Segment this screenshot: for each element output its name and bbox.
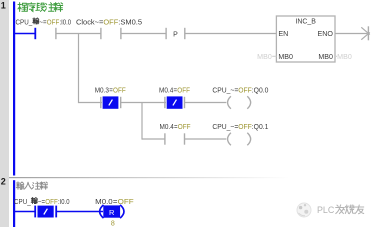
left power rail network 2 [13,180,15,227]
svg-text::I0.0: :I0.0 [60,19,72,26]
contact M0.4 left leg (rung2) [164,97,166,108]
svg-text:P: P [173,31,178,38]
contact M0.4 closed highlight box (rung2) [167,96,183,108]
svg-text:CPU_~=: CPU_~= [212,87,238,94]
wire to coil Q0.0 [185,102,227,104]
rung 1 wire from rail (energized) [14,33,35,35]
svg-text:Clock~=: Clock~= [76,19,103,26]
branch junction down to rung 2 [78,34,80,104]
svg-text:2: 2 [1,176,6,186]
svg-text::Q0.0: :Q0.0 [252,87,269,94]
wire to INC_B EN [185,33,277,35]
coil Q0.1 [228,133,231,146]
wire [56,33,101,35]
contact M0.4 right leg (rung2) [184,97,186,108]
svg-text:MB0: MB0 [278,54,293,61]
wire to coil Q0.1 [185,138,227,140]
svg-text:OFF: OFF [113,87,126,94]
network 1 comment 程序段注释 [18,3,27,12]
svg-text:OFF: OFF [47,19,60,26]
svg-text:MB0: MB0 [318,54,333,61]
pin stub IN [272,55,276,57]
svg-text:EN: EN [278,31,288,38]
svg-text:CPU_: CPU_ [16,19,33,26]
network number sidebar [0,0,9,227]
positive edge contact P right leg [184,28,186,39]
svg-text:OFF: OFF [238,124,252,131]
contact M0.4 left leg (rung3) [164,133,166,144]
svg-text:M0.3: M0.3 [95,87,109,94]
contact I0.0 right leg (blue) [55,206,57,218]
svg-text:1: 1 [1,0,6,10]
svg-text:M0.0: M0.0 [95,199,113,206]
pin stub OUT [335,55,337,57]
svg-text::SM0.5: :SM0.5 [118,19,142,26]
svg-text:OFF: OFF [238,87,252,94]
svg-text:M0.4: M0.4 [160,124,174,131]
wire [121,102,166,104]
svg-text:PLC: PLC [317,205,334,216]
watermark logo circle [297,203,311,217]
contact Clock SM0.5 left leg [100,28,102,39]
svg-text:CPU_~=: CPU_~= [212,124,238,131]
contact I0.0 closed highlight box [38,206,54,218]
svg-text:MB0: MB0 [337,54,352,61]
contact M0.3 right leg [120,97,122,108]
svg-text:OFF: OFF [177,87,190,94]
svg-text:~=: ~= [39,19,46,26]
contact CPU_输入 I0.0 left leg (blue) [34,28,36,39]
svg-text:M0.4: M0.4 [159,87,173,94]
svg-text:ENO: ENO [318,31,334,38]
svg-text:MB0: MB0 [257,54,272,61]
contact M0.3 left leg [100,97,102,108]
rung 3 wire [142,138,165,140]
contact M0.4 right leg (rung3) [184,133,186,144]
svg-text:CPU_: CPU_ [14,199,31,206]
svg-text:R: R [109,208,115,217]
network 2 comment 输入注释 [16,182,23,189]
svg-text:OFF: OFF [178,124,191,131]
open rung continuation arrow [367,26,369,40]
svg-text::I0.0: :I0.0 [58,199,70,206]
svg-text:~=: ~= [38,199,45,206]
contact SM0.5 right leg [120,28,122,39]
reset coil M0.0 (energized) [100,205,104,218]
network separator line [9,177,339,178]
svg-text::Q0.1: :Q0.1 [252,124,269,131]
rung 4 wire from rail (energized) [14,211,35,213]
svg-text:OFF: OFF [45,199,58,206]
wire from ENO [335,33,367,35]
svg-text:INC_B: INC_B [295,18,316,25]
contact M0.3 closed highlight box [103,96,119,108]
positive edge contact P left leg [165,28,167,39]
svg-text:8: 8 [111,220,115,227]
contact I0.0 left leg (blue) [34,206,36,218]
coil Q0.0 [228,96,231,109]
rung 2 wire [79,102,103,104]
svg-text:OFF: OFF [103,19,118,26]
contact I0.0 right leg [55,28,57,39]
wire to coil (energized) [56,211,103,213]
branch junction down to rung 3 [141,103,143,140]
wire [121,33,166,35]
box instruction INC_B U1 [276,16,335,62]
left power rail network 1 [13,2,15,176]
